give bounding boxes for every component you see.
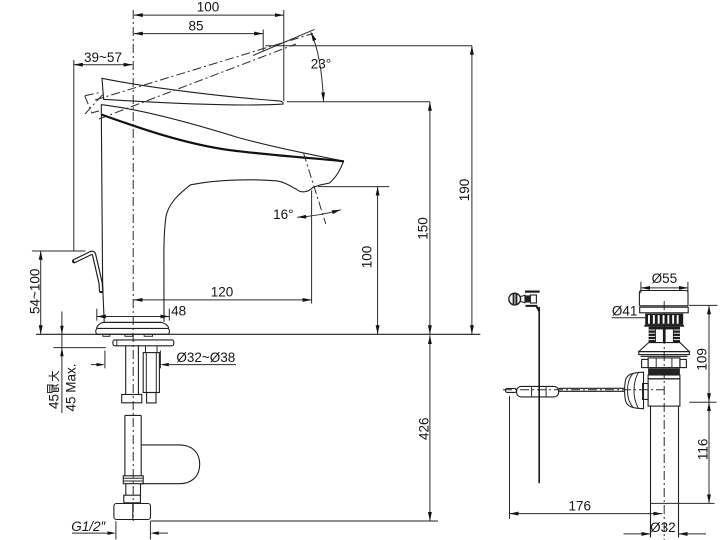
svg-text:85: 85: [188, 19, 203, 34]
hose loop: [141, 445, 200, 484]
handle alt position dashed outline: [85, 92, 102, 113]
23 deg line: [253, 29, 315, 55]
dim 39~57: [74, 64, 133, 66]
dim 45 max line: [61, 312, 63, 414]
svg-text:176: 176: [569, 499, 592, 514]
dim 48: [97, 316, 170, 318]
rod sleeve: [517, 386, 559, 397]
dim 116: [708, 402, 710, 503]
shank tube: [125, 346, 127, 395]
dim 85 extension tick: [262, 30, 264, 51]
drain centerline: [663, 301, 665, 540]
rod tip: [505, 389, 516, 393]
G1/2 nut: [114, 504, 151, 520]
ref line 100 top: [318, 186, 389, 188]
dim G1/2 ext lines: [115, 521, 117, 539]
ref line 190 top: [266, 45, 472, 47]
flare cone: [639, 343, 690, 352]
lock ring with tabs: [648, 358, 680, 368]
dim 54~100: [40, 251, 42, 334]
wing nut: [625, 372, 644, 409]
16 deg axis dash-dot: [304, 153, 326, 224]
svg-text:Ø41: Ø41: [612, 303, 638, 318]
dim 85: [134, 33, 263, 35]
base flange skirt: [97, 322, 169, 328]
dim 100: [134, 14, 284, 16]
tailpipe: [650, 406, 652, 537]
ref line 116 bottom / pipe end: [651, 502, 715, 504]
spout crease bold: [101, 115, 344, 162]
spout top curve: [102, 105, 344, 161]
threaded body: [649, 327, 680, 343]
knob neck: [520, 295, 525, 302]
svg-text:120: 120: [211, 285, 234, 300]
pull rod hook: [74, 253, 101, 291]
dim 39~57 extension left: [73, 60, 75, 252]
svg-text:150: 150: [415, 217, 430, 240]
mounting stud: [145, 346, 147, 353]
dim diameter 41 leader: [612, 317, 646, 319]
svg-text:16°: 16°: [273, 207, 293, 222]
dim 45 max arrow upper: [60, 326, 64, 334]
dim diameter 32~38 right arrow and leader: [160, 363, 168, 367]
horizontal rod: [559, 387, 625, 389]
glyph da: [49, 371, 60, 381]
dim 54~100 top ref: [32, 250, 86, 252]
dim diameter 55 ticks: [640, 282, 642, 294]
svg-text:54~100: 54~100: [28, 269, 43, 314]
rod collar: [643, 384, 649, 400]
dim 190: [471, 46, 473, 334]
tee body: [648, 379, 680, 406]
centerline faucet: [132, 10, 134, 521]
strainer crown slots: [645, 314, 683, 325]
svg-text:190: 190: [457, 179, 472, 202]
dim diameter 55: [641, 287, 688, 289]
text 45 zui da rotated: [47, 371, 62, 409]
rubber washer dark: [648, 368, 680, 375]
column left edge: [101, 104, 104, 321]
ref line 150 top: [287, 101, 430, 103]
dim 109 bottom ref: [689, 401, 716, 403]
svg-text:116: 116: [696, 439, 711, 461]
dim 120 ext right: [311, 191, 313, 304]
washer plate: [113, 340, 174, 346]
dim 45 max arrow lower: [60, 348, 64, 356]
dim G1/2 arrows: [72, 532, 108, 534]
dim 109: [708, 305, 710, 402]
cap rim: [639, 305, 688, 307]
dim diameter 32: [624, 533, 651, 535]
svg-text:G1/2″: G1/2″: [71, 519, 106, 534]
svg-text:23°: 23°: [311, 56, 331, 71]
crown base ring: [644, 325, 684, 327]
handle blade outline: [102, 78, 283, 105]
stud end: [147, 393, 156, 403]
svg-text:48: 48: [171, 303, 186, 318]
handle alt axis dash: [85, 93, 104, 114]
spout outlet and underside arch: [164, 161, 344, 322]
svg-text:Ø55: Ø55: [652, 271, 678, 286]
handle axis dash-dot 2: [99, 44, 296, 119]
svg-text:39~57: 39~57: [84, 50, 122, 65]
base disc: [96, 328, 170, 334]
supply tube: [124, 415, 126, 476]
dim 100 extension right: [283, 10, 285, 101]
gasket tabs: [103, 334, 110, 336]
svg-text:100: 100: [197, 0, 220, 14]
dim 176: [510, 513, 663, 515]
16 deg arc: [297, 210, 341, 217]
collar: [124, 495, 141, 503]
baseline counter top: [36, 333, 480, 335]
crimp band: [123, 476, 143, 484]
rod centerline: [503, 389, 664, 391]
knob ball: [509, 293, 521, 305]
svg-text:426: 426: [416, 417, 431, 440]
dim diameter 32~38 left arrow: [91, 364, 97, 366]
svg-text:109: 109: [694, 348, 709, 371]
washer gray: [648, 375, 680, 379]
dim 150: [429, 102, 431, 334]
svg-text:Ø32~Ø38: Ø32~Ø38: [176, 350, 235, 365]
drain plug cap: [639, 291, 688, 306]
dim 426: [429, 335, 431, 521]
bottom line: [151, 520, 438, 522]
lift rod bracket: [525, 291, 540, 293]
dim 176 ext left: [509, 396, 511, 519]
svg-text:45 Max.: 45 Max.: [64, 363, 79, 411]
dim 100 vertical: [377, 187, 379, 335]
ref line 45 max lower: [54, 347, 106, 349]
knob clevis: [525, 295, 530, 302]
dim 109 top ref: [689, 304, 718, 306]
glyph zui: [48, 384, 59, 392]
dim 48 ticks: [96, 309, 98, 321]
23 deg arc: [311, 32, 324, 101]
svg-text:45: 45: [47, 394, 62, 409]
handle axis dash-dot 1: [95, 34, 313, 101]
lift rod vertical: [538, 307, 540, 483]
lower tube: [125, 484, 127, 496]
svg-text:100: 100: [360, 246, 375, 269]
stud nut: [143, 353, 159, 393]
svg-text:Ø32: Ø32: [650, 520, 676, 535]
dim 120: [134, 299, 312, 301]
